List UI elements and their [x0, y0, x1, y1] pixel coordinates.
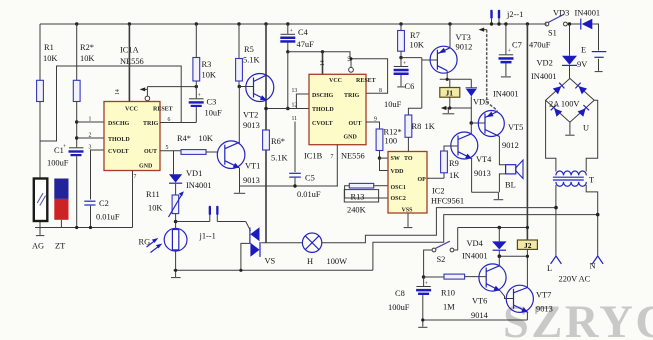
photoresistor RG [164, 228, 187, 270]
svg-text:R4*: R4* [177, 134, 191, 143]
svg-text:2A 100V: 2A 100V [549, 100, 579, 109]
arrow decoration relay rail [441, 106, 447, 110]
capacitor C1 [63, 144, 84, 228]
RG light arrows [147, 238, 163, 253]
transistor VT2 [246, 74, 274, 102]
battery E [592, 52, 607, 72]
IC1B GND stub pin 7 [331, 145, 338, 186]
svg-text:1K: 1K [425, 122, 435, 131]
diode VD4 [492, 226, 507, 257]
svg-text:100uF: 100uF [388, 303, 410, 312]
junction dot rail C at J2 bus [526, 226, 529, 229]
resistor R13 [345, 183, 388, 198]
bus from j2-1 to VT5 emitter [479, 28, 498, 112]
wire top supply rail [40, 23, 547, 25]
svg-text:T: T [589, 176, 594, 185]
svg-text:RESET: RESET [153, 107, 173, 113]
terminal N fork [592, 256, 603, 264]
junction dot J1 bottom [448, 106, 451, 109]
wire CVOLT pin3 to C2 [91, 150, 105, 200]
wire bridge left to primary [546, 100, 556, 171]
IC1B box [309, 74, 366, 144]
svg-text:IN4001: IN4001 [531, 72, 557, 81]
wire relay top rail [440, 78, 472, 80]
svg-text:VD1: VD1 [186, 169, 202, 178]
switch S1 [545, 14, 567, 26]
svg-text:C5: C5 [305, 174, 315, 183]
svg-text:+: + [198, 93, 201, 99]
svg-text:10K: 10K [199, 134, 213, 143]
svg-text:VT2: VT2 [243, 111, 258, 120]
svg-text:R8: R8 [412, 122, 422, 131]
wire mains column x266 [264, 22, 267, 242]
svg-text:R9: R9 [449, 159, 459, 168]
transformer T primary [556, 171, 586, 175]
svg-text:TRIG: TRIG [143, 121, 159, 127]
wire jog AG column to y65 rail [40, 66, 181, 141]
svg-text:13: 13 [292, 88, 298, 94]
bridge rectifier U [546, 78, 595, 122]
junction dot VT3 collector [446, 78, 449, 81]
resistor R10 [424, 274, 487, 279]
svg-text:BL: BL [505, 181, 516, 190]
wire rail C S2 to J2 [458, 227, 528, 229]
svg-text:VSS: VSS [402, 208, 414, 214]
svg-text:ZT: ZT [55, 242, 65, 251]
svg-text:SW: SW [391, 156, 400, 162]
wire R7 to VT3 base column [401, 57, 422, 59]
svg-text:IN4001: IN4001 [493, 90, 519, 99]
resistor R2 [73, 22, 80, 147]
svg-text:VT6: VT6 [472, 297, 487, 306]
wire BL bottom to ground [499, 174, 505, 192]
svg-text:6: 6 [168, 117, 171, 123]
capacitor C3 [189, 87, 204, 123]
diode VD1 [169, 174, 182, 195]
svg-text:9013: 9013 [243, 176, 260, 185]
bridge diode bottom-left [551, 105, 563, 117]
reset arrow decoration [140, 87, 148, 91]
wire rail B neutral to N [373, 213, 600, 270]
capacitor C7 [499, 22, 514, 77]
svg-text:10uF: 10uF [205, 109, 223, 118]
svg-text:3: 3 [89, 145, 92, 151]
ground bridge minus [565, 122, 574, 135]
svg-text:R2*: R2* [80, 43, 94, 52]
wire rail VD3 to battery corner [592, 24, 598, 51]
svg-text:8: 8 [379, 88, 382, 94]
IC1B VCC stub [320, 50, 326, 74]
svg-text:R12*: R12* [384, 128, 402, 137]
svg-text:VD2: VD2 [537, 59, 553, 68]
ground symbol VT1 [234, 186, 245, 193]
resistor R9 [441, 146, 458, 178]
svg-text:470uF: 470uF [529, 41, 551, 50]
svg-text:14: 14 [115, 89, 121, 95]
svg-text:CVOLT: CVOLT [108, 149, 129, 155]
svg-text:NE556: NE556 [341, 152, 365, 161]
wire VT6 collector riser [498, 256, 500, 266]
svg-text:5.1K: 5.1K [243, 56, 260, 65]
IC1A reset bubble pin 4 [145, 87, 150, 101]
svg-text:NE556: NE556 [120, 57, 144, 66]
transformer T secondary [556, 182, 586, 186]
ground rail mid (VT1 C5 IC1B GND) [240, 185, 339, 187]
svg-text:VT1: VT1 [245, 162, 260, 171]
svg-text:C8: C8 [395, 289, 405, 298]
transistor VT1 [217, 141, 245, 169]
svg-text:THOLD: THOLD [108, 137, 130, 143]
resistor R8 [405, 108, 422, 151]
ground relay J1 [443, 108, 455, 114]
wire C4 column down to THOLD2 [286, 52, 290, 110]
svg-text:10K: 10K [80, 54, 94, 63]
svg-text:9012: 9012 [502, 141, 519, 150]
svg-text:47uF: 47uF [297, 40, 315, 49]
ground C8 bottom [418, 320, 427, 327]
svg-text:VD4: VD4 [467, 239, 484, 248]
svg-text:IC2: IC2 [432, 187, 445, 196]
svg-text:+: + [425, 281, 428, 287]
node R11-j1 junction [174, 220, 178, 224]
svg-text:5: 5 [166, 145, 169, 151]
svg-text:VS: VS [265, 257, 276, 266]
node R7 base junction [399, 56, 402, 59]
transistor VT6 [479, 264, 506, 291]
IC2 pin labels [391, 156, 427, 214]
svg-text:j2--1: j2--1 [506, 10, 523, 19]
svg-text:S2: S2 [437, 255, 446, 264]
svg-text:R6*: R6* [271, 137, 285, 146]
wire THOLD2 to mains column [264, 107, 309, 111]
svg-text:OUT: OUT [349, 121, 362, 127]
svg-text:R1: R1 [44, 43, 54, 52]
sensor ZT [54, 179, 68, 228]
wire VT4 emitter down [471, 158, 473, 192]
node R5 base junction [238, 85, 242, 89]
rheostat R11 [169, 191, 184, 228]
svg-text:+: + [403, 61, 406, 67]
svg-text:240K: 240K [347, 206, 366, 215]
diode VD2 [562, 22, 577, 78]
transformer T core [553, 177, 584, 180]
svg-text:DSCHG: DSCHG [108, 121, 130, 127]
svg-text:VD3: VD3 [553, 9, 569, 18]
wire secondary right to N [586, 185, 598, 256]
wire reset net y85.5 [147, 85, 198, 88]
node SW junction [378, 156, 381, 159]
svg-text:C3: C3 [207, 98, 217, 107]
bus J2 column [526, 22, 529, 240]
wire VT5 base [471, 122, 485, 124]
wire base column x421.8 [421, 58, 423, 109]
wire secondary left to L [555, 185, 557, 256]
node OUT1 to VD1 [173, 152, 175, 174]
svg-text:IC1B: IC1B [304, 152, 323, 161]
connector j2-1 [490, 10, 501, 26]
svg-text:9013: 9013 [474, 169, 491, 178]
junction dot bottom rail C8 [421, 318, 424, 321]
bridge diode top-right [575, 83, 587, 95]
junction dot reset-B stem [350, 57, 353, 60]
svg-text:+: + [508, 49, 511, 55]
svg-text:100: 100 [385, 137, 398, 146]
wire VT3 emitter to rail [448, 22, 451, 48]
svg-text:VCC: VCC [329, 78, 342, 84]
wire rail segment S1 to VD3 [567, 23, 581, 25]
diode VD3 [581, 19, 593, 30]
wire to VDD pin [380, 158, 389, 170]
transistor VT4 [451, 132, 478, 159]
svg-text:220V AC: 220V AC [559, 275, 591, 284]
svg-text:TO: TO [404, 156, 413, 162]
svg-text:R3: R3 [202, 60, 212, 69]
svg-text:11: 11 [292, 116, 298, 122]
IC1A pin labels [108, 107, 173, 170]
wire gate to triac [246, 222, 251, 231]
wire triac MT2 to lamp [261, 242, 302, 244]
wire OUT pin5 stub [160, 150, 181, 152]
svg-text:C2: C2 [99, 199, 109, 208]
ground IC2 VSS [404, 213, 413, 228]
svg-text:1K: 1K [449, 171, 459, 180]
wire C4 net y52 to TRIG2 [286, 50, 388, 93]
svg-text:IN4001: IN4001 [575, 9, 601, 18]
svg-text:SZRYC: SZRYC [503, 297, 653, 340]
svg-text:10uF: 10uF [384, 100, 402, 109]
svg-text:14: 14 [320, 60, 326, 66]
svg-text:j1--1: j1--1 [199, 232, 216, 241]
capacitor C8 [416, 277, 431, 320]
svg-text:E: E [581, 46, 586, 55]
svg-text:9012: 9012 [456, 43, 473, 52]
svg-text:VT3: VT3 [456, 33, 471, 42]
resistor R4 [181, 150, 218, 155]
svg-text:TRIG: TRIG [344, 93, 360, 99]
wire OP pin to R9 [427, 177, 444, 179]
wire to SW pin [380, 157, 389, 159]
transistor VT7 [506, 285, 533, 312]
svg-text:OP: OP [418, 177, 427, 183]
sensor AG [34, 179, 48, 228]
wire triac MT1 to ground rail [241, 243, 250, 270]
relay J1 [440, 79, 460, 108]
svg-text:CVOLT: CVOLT [312, 121, 333, 127]
svg-text:5.1K: 5.1K [271, 154, 288, 163]
svg-text:GND: GND [139, 164, 153, 170]
svg-text:U: U [583, 124, 589, 133]
svg-text:R11: R11 [146, 190, 160, 199]
svg-text:THOLD: THOLD [312, 107, 334, 113]
diode VD5 [466, 79, 477, 108]
resistor R3 [193, 22, 200, 86]
resistor R7 [398, 22, 405, 57]
svg-text:0.01uF: 0.01uF [297, 190, 321, 199]
svg-text:VT4: VT4 [476, 155, 492, 164]
svg-text:1: 1 [89, 117, 92, 123]
resistor R1 [37, 24, 44, 179]
IC2 box [388, 152, 427, 214]
capacitor C5 [289, 122, 301, 188]
label box R13 [344, 190, 378, 202]
svg-text:9014: 9014 [471, 311, 489, 320]
svg-text:OUT: OUT [144, 149, 157, 155]
svg-text:10K: 10K [43, 54, 57, 63]
wire j1-1 net [176, 215, 246, 222]
svg-text:VT7: VT7 [536, 291, 551, 300]
relay J2 [517, 240, 537, 256]
junction dots ground rail left [75, 226, 78, 229]
svg-text:9013: 9013 [536, 305, 553, 314]
speaker BL [506, 160, 523, 179]
wire DSCHG pin1 to R2 column [75, 120, 104, 123]
svg-text:0.01uF: 0.01uF [96, 213, 120, 222]
node VT5 base junction [470, 121, 474, 125]
wire rail A lamp to L [322, 206, 558, 243]
wire VT2 base [239, 86, 253, 88]
svg-text:H: H [307, 257, 313, 266]
wire DSCHG2 jog [296, 94, 309, 109]
svg-text:C7: C7 [512, 41, 522, 50]
ground BL VT4 [494, 192, 504, 199]
svg-text:R7: R7 [410, 31, 420, 40]
wire bridge right to primary [586, 100, 598, 171]
wire VT1 emitter to ground [239, 168, 241, 187]
ground rail bottom-left RG VS [174, 269, 373, 271]
svg-text:OSC2: OSC2 [391, 196, 406, 202]
svg-text:10K: 10K [410, 41, 424, 50]
wire bottom rail [423, 319, 528, 321]
wire THOLD pin2 to R2 column [75, 136, 104, 139]
transistor VT3 [422, 46, 457, 73]
junction dot J2 bottom node [526, 255, 529, 258]
ground AG tick [36, 228, 44, 236]
svg-text:RG: RG [139, 238, 151, 247]
svg-text:10K: 10K [148, 204, 162, 213]
svg-text:HFC9561: HFC9561 [431, 197, 464, 206]
svg-text:C4: C4 [298, 28, 309, 37]
connector j1-1 [209, 206, 219, 215]
svg-text:GND: GND [344, 135, 358, 141]
node R10 C8 S2 junction [422, 275, 426, 279]
capacitor C4 [280, 22, 295, 52]
ground RG [171, 270, 181, 277]
svg-text:DSCHG: DSCHG [312, 93, 334, 99]
wire VT5 collector to BL [499, 136, 505, 164]
svg-text:N: N [590, 262, 596, 271]
resistor R6 [263, 130, 270, 150]
svg-text:R10: R10 [441, 289, 455, 298]
IC1A box [104, 102, 160, 171]
svg-text:J1: J1 [446, 89, 454, 98]
transistor VT5 [478, 111, 504, 137]
svg-text:VT5: VT5 [508, 123, 523, 132]
svg-text:S1: S1 [548, 29, 557, 38]
svg-text:AG: AG [32, 242, 44, 251]
wire relay bottom rail [443, 108, 471, 123]
svg-text:VDD: VDD [391, 169, 405, 175]
svg-text:100W: 100W [327, 257, 348, 266]
bridge diode bottom-right [578, 105, 590, 117]
svg-text:VCC: VCC [125, 107, 138, 113]
wire OUT2 pin9 [366, 122, 380, 129]
svg-text:L: L [547, 264, 552, 273]
IC1B pin labels [312, 78, 376, 141]
wire VT7 collector riser [526, 256, 528, 287]
svg-text:7: 7 [331, 154, 334, 160]
bridge diode top-left [553, 83, 565, 95]
svg-text:IN4001: IN4001 [186, 181, 212, 190]
junction dot RG ground rail [174, 269, 177, 272]
resistor R5 [236, 22, 243, 86]
svg-text:RESET: RESET [356, 78, 376, 84]
wire VT1 collector riser [238, 87, 240, 144]
svg-text:9: 9 [374, 117, 377, 123]
svg-text:OSC1: OSC1 [391, 185, 406, 191]
switch S2 [424, 228, 458, 278]
wire J2 to VD4 column [498, 254, 528, 258]
svg-text:7: 7 [134, 174, 137, 180]
svg-text:10K: 10K [202, 71, 216, 80]
capacitor C6 [394, 58, 409, 87]
lamp H [302, 233, 321, 252]
wire emitter ground rail [472, 191, 499, 193]
wire VT7 emitter down [526, 312, 528, 320]
svg-text:R5: R5 [244, 45, 254, 54]
svg-text:R13: R13 [351, 193, 365, 202]
svg-text:9013: 9013 [243, 121, 260, 130]
resistor R12 [376, 129, 383, 158]
svg-text:+: + [290, 29, 293, 35]
svg-text:1M: 1M [443, 303, 455, 312]
wire VT4 collector riser [470, 123, 472, 134]
svg-text:C1: C1 [54, 146, 64, 155]
svg-text:C6: C6 [405, 82, 415, 91]
svg-text:2: 2 [89, 133, 92, 139]
wire VT3 collector [446, 71, 448, 80]
terminal L fork [551, 256, 562, 264]
IC1A GND stub pin 7 [133, 171, 137, 228]
svg-text:J2: J2 [524, 241, 532, 250]
capacitor C2 [84, 201, 95, 227]
triac VS [250, 227, 260, 257]
svg-text:100uF: 100uF [47, 159, 69, 168]
svg-text:9V: 9V [577, 60, 587, 69]
wire TRIG pin6 to C3 bottom [160, 122, 196, 124]
wire VT6 emitter to VT7 base [500, 291, 514, 299]
ground rail left (AG ZT C1 C2 GND) [35, 227, 133, 229]
svg-text:IN4001: IN4001 [462, 252, 488, 261]
IC1B reset bubble pin 10 [348, 56, 354, 72]
IC1A VCC stub pin 14 [115, 22, 131, 101]
